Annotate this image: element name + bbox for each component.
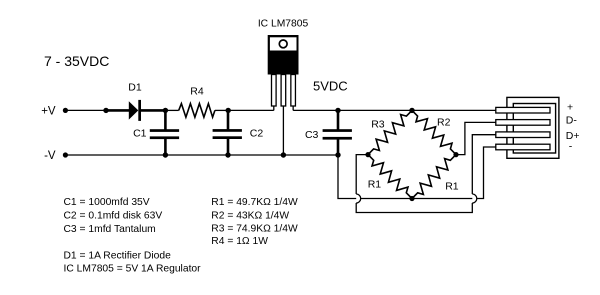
svg-text:C2: C2 (250, 128, 264, 140)
wire D+ up to pin3 (472, 135, 496, 194)
node +V terminal (63, 108, 68, 113)
svg-text:-V: -V (44, 150, 56, 162)
node bridge left (365, 152, 370, 157)
svg-text:IC LM7805 = 5V 1A Regulator: IC LM7805 = 5V 1A Regulator (64, 264, 202, 275)
svg-text:R4 = 1Ω 1W: R4 = 1Ω 1W (211, 236, 268, 247)
svg-text:R2 = 43KΩ 1/4W: R2 = 43KΩ 1/4W (211, 210, 289, 221)
resistor R1 right (412, 155, 456, 199)
J1 pin 4 bar (496, 144, 550, 150)
wire to R4 (165, 109, 178, 111)
capacitor C2 (227, 110, 230, 129)
svg-text:C2 = 0.1mfd disk 63V: C2 = 0.1mfd disk 63V (64, 211, 163, 222)
wire lower rail D+ (356, 203, 472, 213)
node C2 bottom (225, 152, 230, 157)
svg-text:C3: C3 (305, 129, 319, 141)
node 7805 gnd (281, 152, 286, 157)
svg-text:R1: R1 (368, 179, 382, 191)
wire hop left (356, 194, 361, 203)
wire hop right (472, 194, 477, 203)
node C3 top (335, 108, 340, 113)
capacitor C3 (337, 110, 340, 129)
wire thick anode segment (106, 109, 129, 112)
resistor R1 left (368, 155, 412, 199)
node bridge bottom (409, 196, 414, 201)
connector J1 inner (513, 104, 555, 154)
node bridge right (453, 152, 458, 157)
wire right node to pin2 (456, 122, 496, 154)
node C1 top (163, 108, 168, 113)
svg-text:IC LM7805: IC LM7805 (258, 19, 309, 30)
U1 pin 1 (272, 75, 277, 107)
wire -V rail (65, 154, 338, 156)
IC U1 LM7805 body (268, 35, 299, 75)
J1 pin 2 bar (496, 120, 550, 126)
svg-text:R2: R2 (437, 117, 451, 129)
svg-text:-: - (569, 141, 573, 153)
svg-text:R3: R3 (371, 118, 385, 130)
U1 pin 2 (281, 75, 286, 107)
node dot A (103, 108, 108, 113)
node -V terminal (63, 152, 68, 157)
wire thick cathode segment (141, 109, 165, 112)
wire ground return (338, 147, 496, 199)
wire 5VDC rail (293, 109, 496, 111)
J1 pin 1 bar (496, 107, 550, 113)
wire pin3 stub (292, 106, 294, 110)
wire left node to lower rail (356, 155, 368, 194)
svg-text:R1: R1 (445, 180, 459, 192)
svg-text:5VDC: 5VDC (313, 78, 348, 93)
svg-text:+V: +V (41, 105, 56, 117)
wire C2 node to 7805 pin1 (228, 109, 274, 111)
svg-text:R1 = 49.7KΩ 1/4W: R1 = 49.7KΩ 1/4W (211, 197, 298, 208)
node C3 bottom (335, 152, 340, 157)
resistor R4 (179, 104, 215, 118)
wire +V thin segment (65, 109, 106, 111)
svg-text:R3 = 74.9KΩ 1/4W: R3 = 74.9KΩ 1/4W (211, 224, 298, 235)
wire pin2 ground (282, 106, 284, 155)
node C1 bottom (163, 152, 168, 157)
capacitor C1 (164, 110, 167, 129)
svg-text:C1: C1 (133, 128, 147, 140)
resistor R3 (368, 110, 412, 154)
wire R4 to C2 node (215, 109, 228, 111)
svg-text:7 - 35VDC: 7 - 35VDC (44, 53, 109, 69)
node bridge top (409, 108, 414, 113)
svg-text:R4: R4 (190, 86, 204, 98)
svg-text:+: + (567, 101, 573, 113)
wire pin1 stub (273, 106, 275, 110)
J1 pin 3 bar (496, 132, 550, 138)
connector J1 outer (507, 97, 559, 158)
svg-text:D1 = 1A Rectifier Diode: D1 = 1A Rectifier Diode (64, 250, 172, 261)
svg-text:C1 = 1000mfd 35V: C1 = 1000mfd 35V (64, 197, 150, 208)
svg-text:D-: D- (566, 115, 578, 127)
resistor R2 (412, 110, 456, 154)
svg-text:C3 = 1mfd Tantalum: C3 = 1mfd Tantalum (64, 224, 156, 235)
node C2 top (226, 108, 231, 113)
diode D1 (129, 101, 139, 119)
U1 pin 3 (291, 75, 296, 107)
svg-text:D1: D1 (128, 82, 142, 94)
